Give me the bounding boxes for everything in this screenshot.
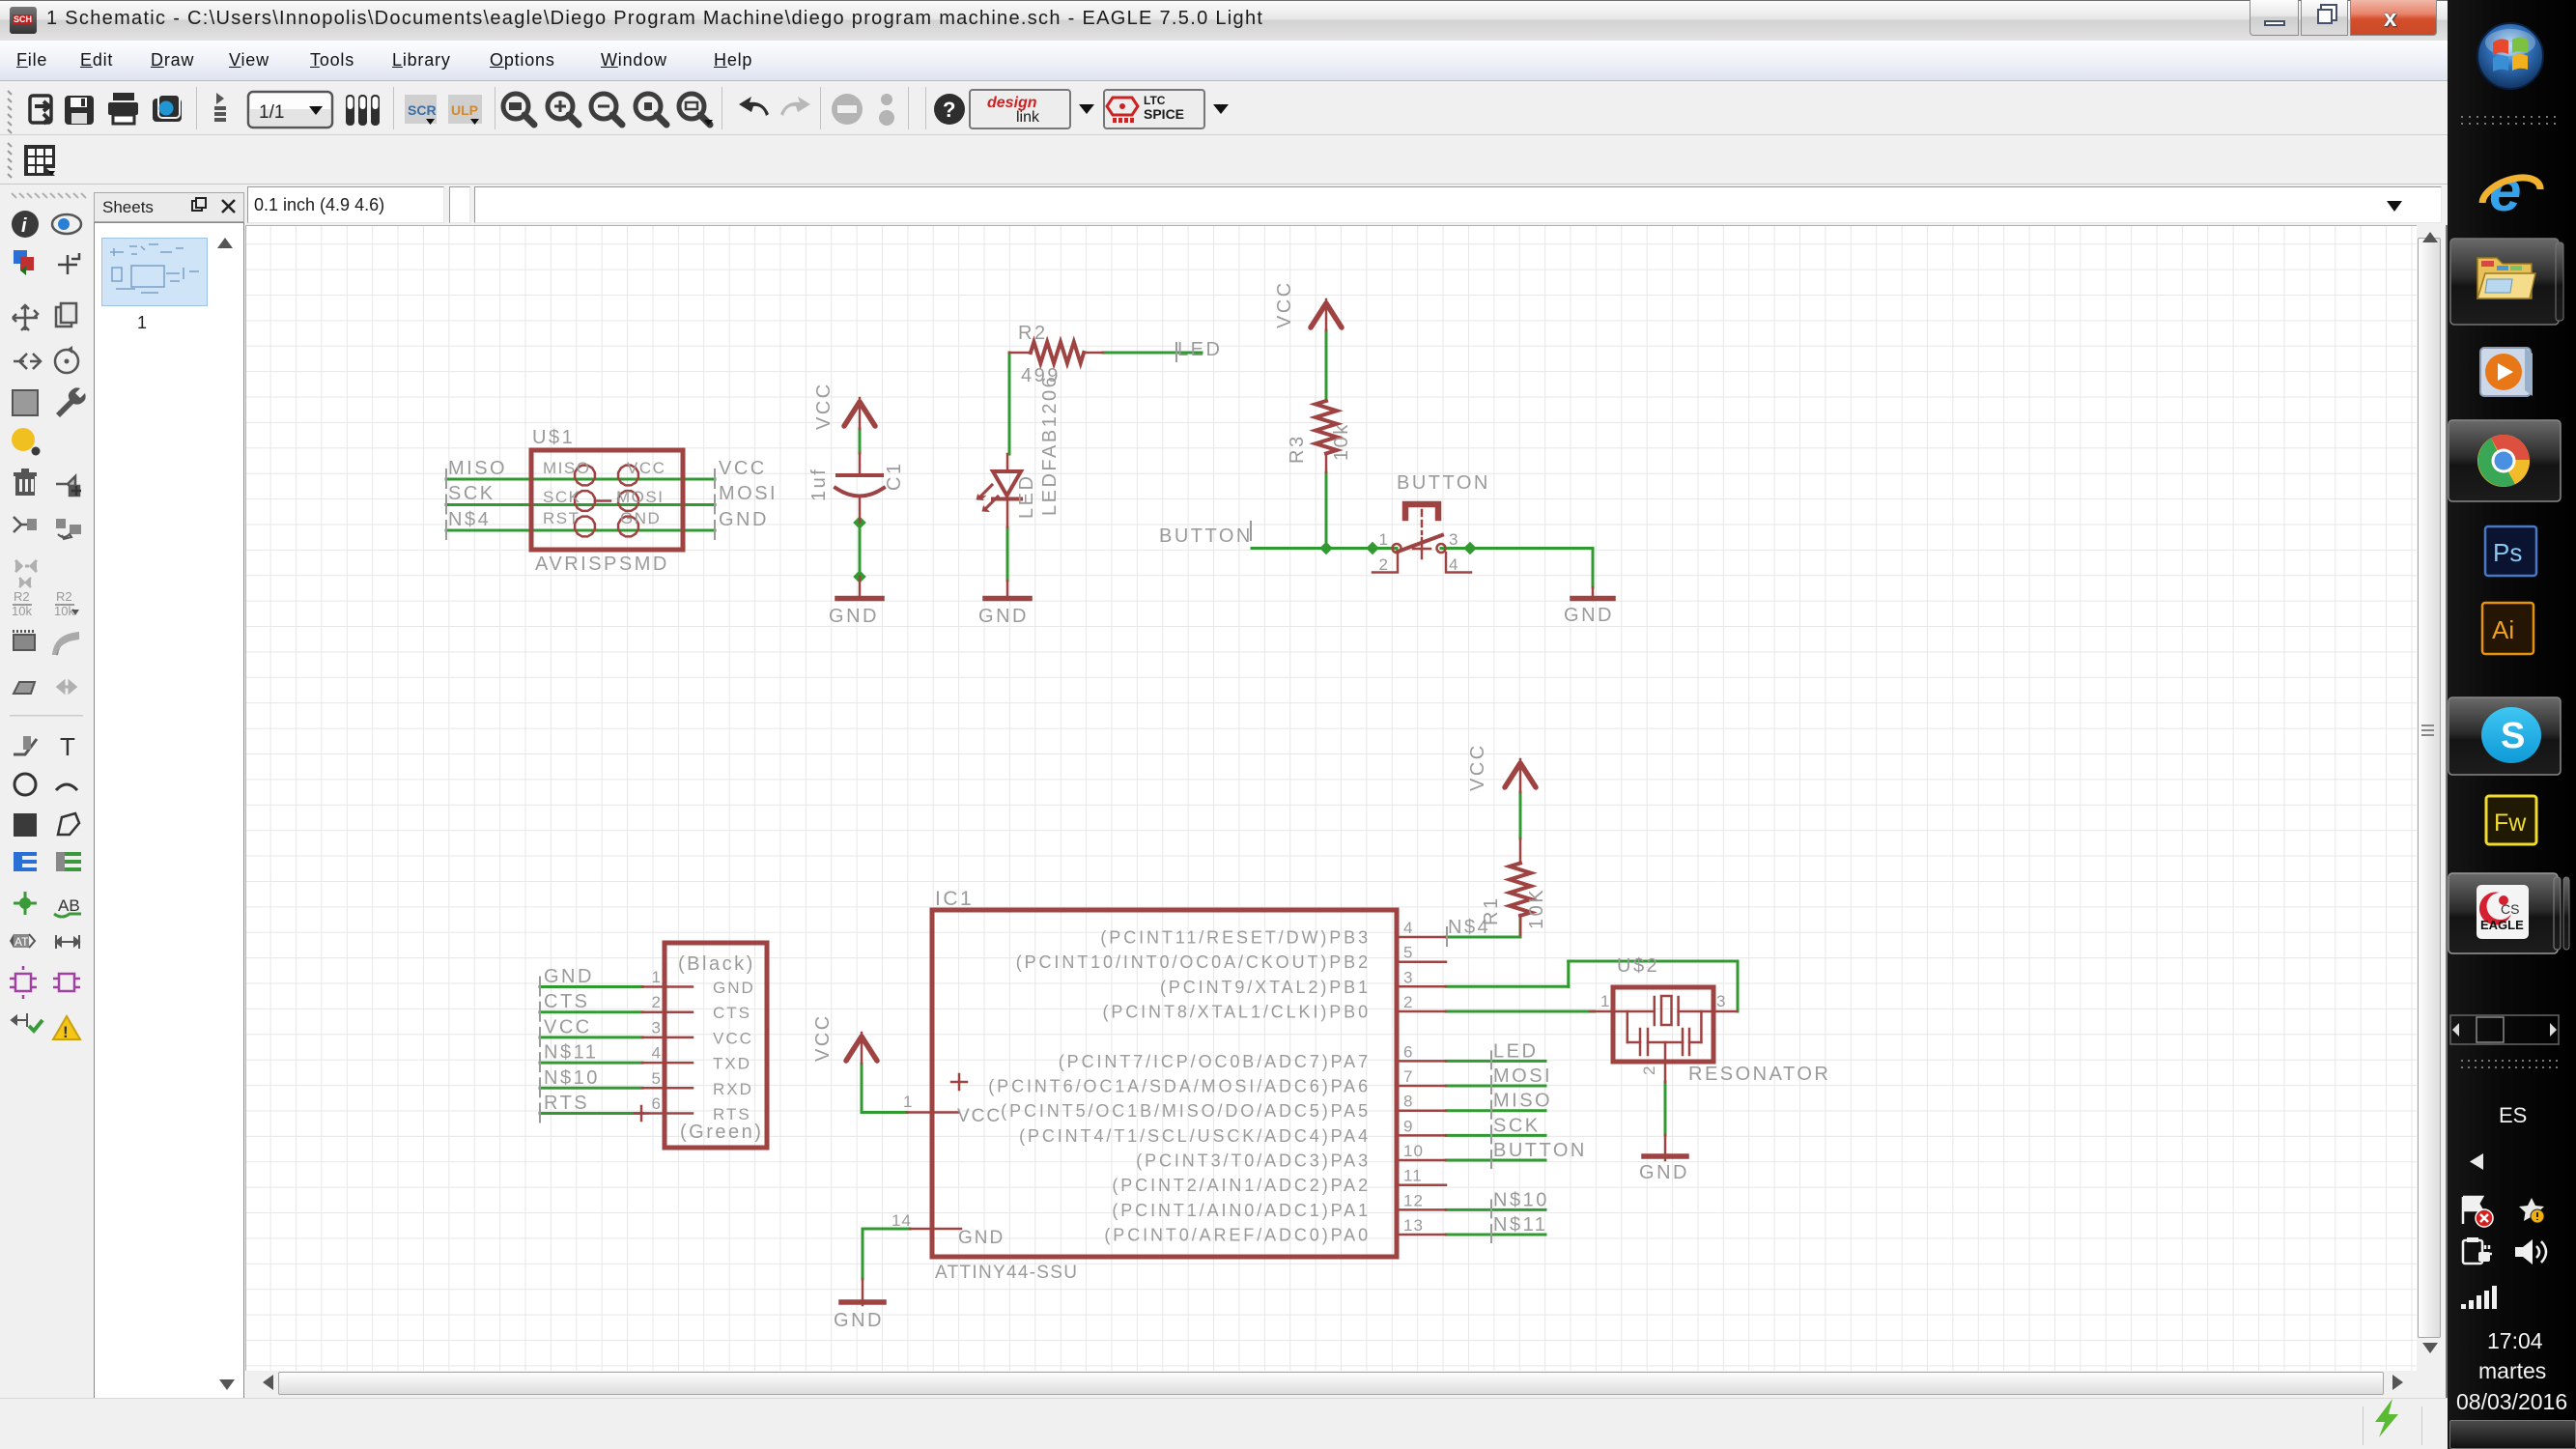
svg-text:1uf: 1uf (808, 468, 830, 501)
svg-text:(PCINT8/XTAL1/CLKI)PB0: (PCINT8/XTAL1/CLKI)PB0 (1102, 1003, 1371, 1022)
svg-text:VCC: VCC (812, 1013, 834, 1062)
svg-text:13: 13 (1403, 1216, 1424, 1235)
svg-text:Ps: Ps (2493, 538, 2522, 567)
svg-text:CTS: CTS (544, 991, 590, 1012)
svg-text:3: 3 (1449, 530, 1458, 549)
svg-text:SCK: SCK (1493, 1115, 1541, 1136)
svg-text:LED: LED (1493, 1040, 1538, 1062)
svg-text:6: 6 (652, 1094, 662, 1113)
svg-text:Fw: Fw (2494, 810, 2527, 837)
svg-text:IC1: IC1 (935, 888, 974, 910)
svg-text:4: 4 (1403, 919, 1413, 937)
svg-text:3: 3 (1716, 992, 1726, 1010)
svg-text:SCK: SCK (448, 483, 495, 504)
svg-text:T: T (60, 732, 75, 761)
svg-text:GND: GND (1564, 605, 1614, 626)
svg-text:SCR: SCR (408, 102, 437, 118)
svg-text:5: 5 (1403, 944, 1413, 962)
svg-text:RESONATOR: RESONATOR (1688, 1064, 1830, 1085)
svg-text:RTS: RTS (544, 1093, 589, 1114)
svg-text:i: i (21, 215, 27, 237)
svg-text:10k: 10k (1331, 422, 1352, 461)
svg-text:SPICE: SPICE (1144, 106, 1184, 122)
svg-text:(PCINT7/ICP/OC0B/ADC7)PA7: (PCINT7/ICP/OC0B/ADC7)PA7 (1059, 1052, 1371, 1071)
svg-text:(PCINT11/RESET/DW)PB3: (PCINT11/RESET/DW)PB3 (1100, 928, 1371, 948)
svg-text:(Green): (Green) (680, 1122, 763, 1143)
svg-text:RST: RST (543, 509, 580, 527)
svg-text:!: ! (63, 1023, 69, 1041)
svg-text:U$2: U$2 (1617, 955, 1659, 977)
svg-text:RTS: RTS (713, 1105, 751, 1123)
svg-text:(PCINT0/AREF/ADC0)PA0: (PCINT0/AREF/ADC0)PA0 (1104, 1226, 1371, 1245)
svg-text:MISO: MISO (1493, 1091, 1552, 1112)
svg-text:1: 1 (652, 968, 662, 986)
svg-text:N$10: N$10 (544, 1067, 600, 1089)
svg-text:17:04: 17:04 (2487, 1328, 2543, 1353)
svg-text:10k: 10k (12, 604, 32, 618)
svg-text:2: 2 (652, 993, 662, 1011)
svg-text:VCC: VCC (713, 1029, 753, 1047)
svg-text:C1: C1 (884, 461, 905, 491)
svg-text:08/03/2016: 08/03/2016 (2456, 1389, 2567, 1414)
svg-text:LED: LED (1016, 474, 1037, 519)
svg-text:GND: GND (713, 979, 755, 997)
svg-text:link: link (1016, 109, 1040, 126)
svg-text:U$1: U$1 (532, 427, 575, 448)
svg-text:GND: GND (958, 1228, 1005, 1248)
svg-text:5: 5 (652, 1069, 662, 1088)
svg-text:VCC: VCC (719, 458, 767, 479)
svg-text:N$4: N$4 (448, 509, 491, 530)
svg-text:(PCINT3/T0/ADC3)PA3: (PCINT3/T0/ADC3)PA3 (1136, 1151, 1371, 1171)
svg-text:MOSI: MOSI (1493, 1065, 1552, 1087)
svg-text:EAGLE: EAGLE (2480, 918, 2524, 932)
svg-text:MOSI: MOSI (616, 488, 664, 506)
svg-text:2: 2 (1403, 993, 1413, 1011)
svg-text:LED: LED (1177, 339, 1222, 360)
svg-text:GND: GND (719, 509, 769, 530)
svg-text:S: S (2501, 716, 2525, 756)
svg-text:4: 4 (1449, 555, 1458, 574)
svg-text:R2: R2 (14, 589, 30, 604)
svg-text:GND: GND (1639, 1162, 1689, 1183)
svg-text:MISO: MISO (448, 458, 507, 479)
svg-text:ULP: ULP (451, 102, 478, 118)
svg-text:SCK: SCK (543, 488, 580, 506)
svg-text:N$11: N$11 (1493, 1214, 1547, 1236)
svg-text:VCC: VCC (957, 1106, 1002, 1126)
svg-text:R2: R2 (56, 589, 72, 604)
svg-text:GND: GND (829, 606, 879, 627)
svg-text:1: 1 (903, 1093, 913, 1111)
svg-text:9: 9 (1403, 1117, 1413, 1135)
svg-text:2: 2 (1640, 1064, 1658, 1075)
svg-text:(PCINT4/T1/SCL/USCK/ADC4)PA4: (PCINT4/T1/SCL/USCK/ADC4)PA4 (1019, 1126, 1371, 1146)
svg-text:R1: R1 (1481, 895, 1502, 925)
svg-text:VCC: VCC (1467, 743, 1488, 791)
svg-text:R3: R3 (1287, 434, 1308, 464)
svg-text:(PCINT1/AIN0/ADC1)PA1: (PCINT1/AIN0/ADC1)PA1 (1112, 1201, 1371, 1220)
svg-text:CS: CS (2501, 901, 2519, 917)
svg-text:(PCINT9/XTAL2)PB1: (PCINT9/XTAL2)PB1 (1160, 978, 1371, 997)
svg-text:1: 1 (1379, 530, 1389, 549)
svg-text:10k: 10k (54, 604, 74, 618)
svg-text:BUTTON: BUTTON (1159, 526, 1253, 547)
svg-text:VCC: VCC (813, 382, 835, 430)
svg-text:12: 12 (1403, 1191, 1424, 1209)
svg-text:2: 2 (1379, 555, 1389, 574)
svg-text:R2: R2 (1018, 323, 1048, 344)
svg-text:(PCINT2/AIN1/ADC2)PA2: (PCINT2/AIN1/ADC2)PA2 (1112, 1176, 1371, 1195)
svg-text:8: 8 (1403, 1093, 1413, 1111)
svg-text:GND: GND (834, 1310, 884, 1331)
svg-text:Ai: Ai (2492, 615, 2514, 644)
svg-text:AB: AB (58, 896, 80, 915)
svg-text:VCC: VCC (544, 1016, 592, 1037)
svg-text:martes: martes (2478, 1358, 2546, 1383)
svg-text:3: 3 (1403, 968, 1413, 986)
svg-text:GND: GND (978, 606, 1029, 627)
svg-text:VCC: VCC (627, 459, 665, 477)
svg-text:LTC: LTC (1144, 94, 1166, 107)
svg-text:AVRISPSMD: AVRISPSMD (535, 554, 669, 575)
svg-text:RXD: RXD (713, 1080, 753, 1098)
svg-text:(PCINT5/OC1B/MISO/DO/ADC5)PA5: (PCINT5/OC1B/MISO/DO/ADC5)PA5 (1001, 1101, 1371, 1121)
svg-text:TXD: TXD (713, 1055, 751, 1073)
svg-text:7: 7 (1403, 1067, 1413, 1086)
svg-text:1: 1 (1600, 992, 1610, 1010)
svg-text:MISO: MISO (543, 459, 590, 477)
svg-text:(PCINT10/INT0/OC0A/CKOUT)PB2: (PCINT10/INT0/OC0A/CKOUT)PB2 (1016, 952, 1371, 972)
svg-text:4: 4 (652, 1044, 662, 1063)
svg-text:GND: GND (620, 509, 661, 527)
svg-text:10K: 10K (1526, 888, 1547, 929)
svg-text:(Black): (Black) (678, 953, 755, 975)
svg-text:AT: AT (14, 935, 29, 949)
svg-text:MOSI: MOSI (719, 483, 778, 504)
svg-text:LEDFAB1206: LEDFAB1206 (1039, 375, 1061, 516)
svg-text:BUTTON: BUTTON (1397, 472, 1490, 494)
svg-text:BUTTON: BUTTON (1493, 1140, 1587, 1161)
svg-text:N$10: N$10 (1493, 1189, 1549, 1210)
svg-text:6: 6 (1403, 1042, 1413, 1061)
svg-text:?: ? (943, 98, 955, 122)
svg-text:14: 14 (892, 1211, 912, 1230)
svg-text:VCC: VCC (1274, 280, 1295, 328)
svg-text:ATTINY44-SSU: ATTINY44-SSU (935, 1263, 1078, 1283)
svg-text:GND: GND (544, 966, 594, 987)
svg-text:3: 3 (652, 1018, 662, 1037)
svg-text:N$11: N$11 (544, 1042, 598, 1064)
svg-text:ES: ES (2499, 1103, 2527, 1127)
svg-text:11: 11 (1403, 1167, 1423, 1185)
svg-text:1/1: 1/1 (259, 102, 284, 123)
svg-text:CTS: CTS (713, 1004, 751, 1022)
svg-text:10: 10 (1403, 1142, 1424, 1160)
svg-text:(PCINT6/OC1A/SDA/MOSI/ADC6)PA6: (PCINT6/OC1A/SDA/MOSI/ADC6)PA6 (988, 1077, 1371, 1096)
